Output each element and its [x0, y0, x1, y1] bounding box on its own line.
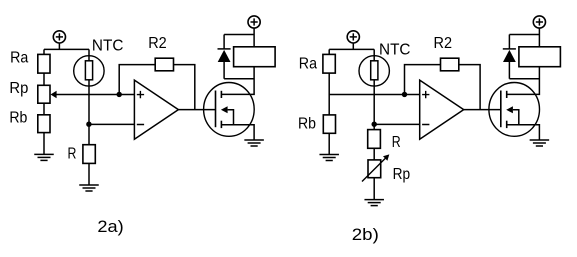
svg-text:NTC: NTC	[92, 38, 124, 55]
svg-text:2b): 2b)	[352, 225, 379, 244]
svg-text:Rp: Rp	[9, 80, 28, 97]
svg-text:R: R	[68, 145, 77, 162]
svg-text:2a): 2a)	[97, 217, 123, 236]
svg-text:Ra: Ra	[10, 50, 28, 67]
svg-text:Rb: Rb	[9, 110, 27, 127]
svg-text:R: R	[392, 134, 401, 151]
svg-text:Rp: Rp	[393, 166, 411, 183]
svg-text:Rb: Rb	[298, 115, 316, 132]
svg-text:NTC: NTC	[379, 42, 411, 59]
svg-text:Ra: Ra	[299, 56, 317, 73]
